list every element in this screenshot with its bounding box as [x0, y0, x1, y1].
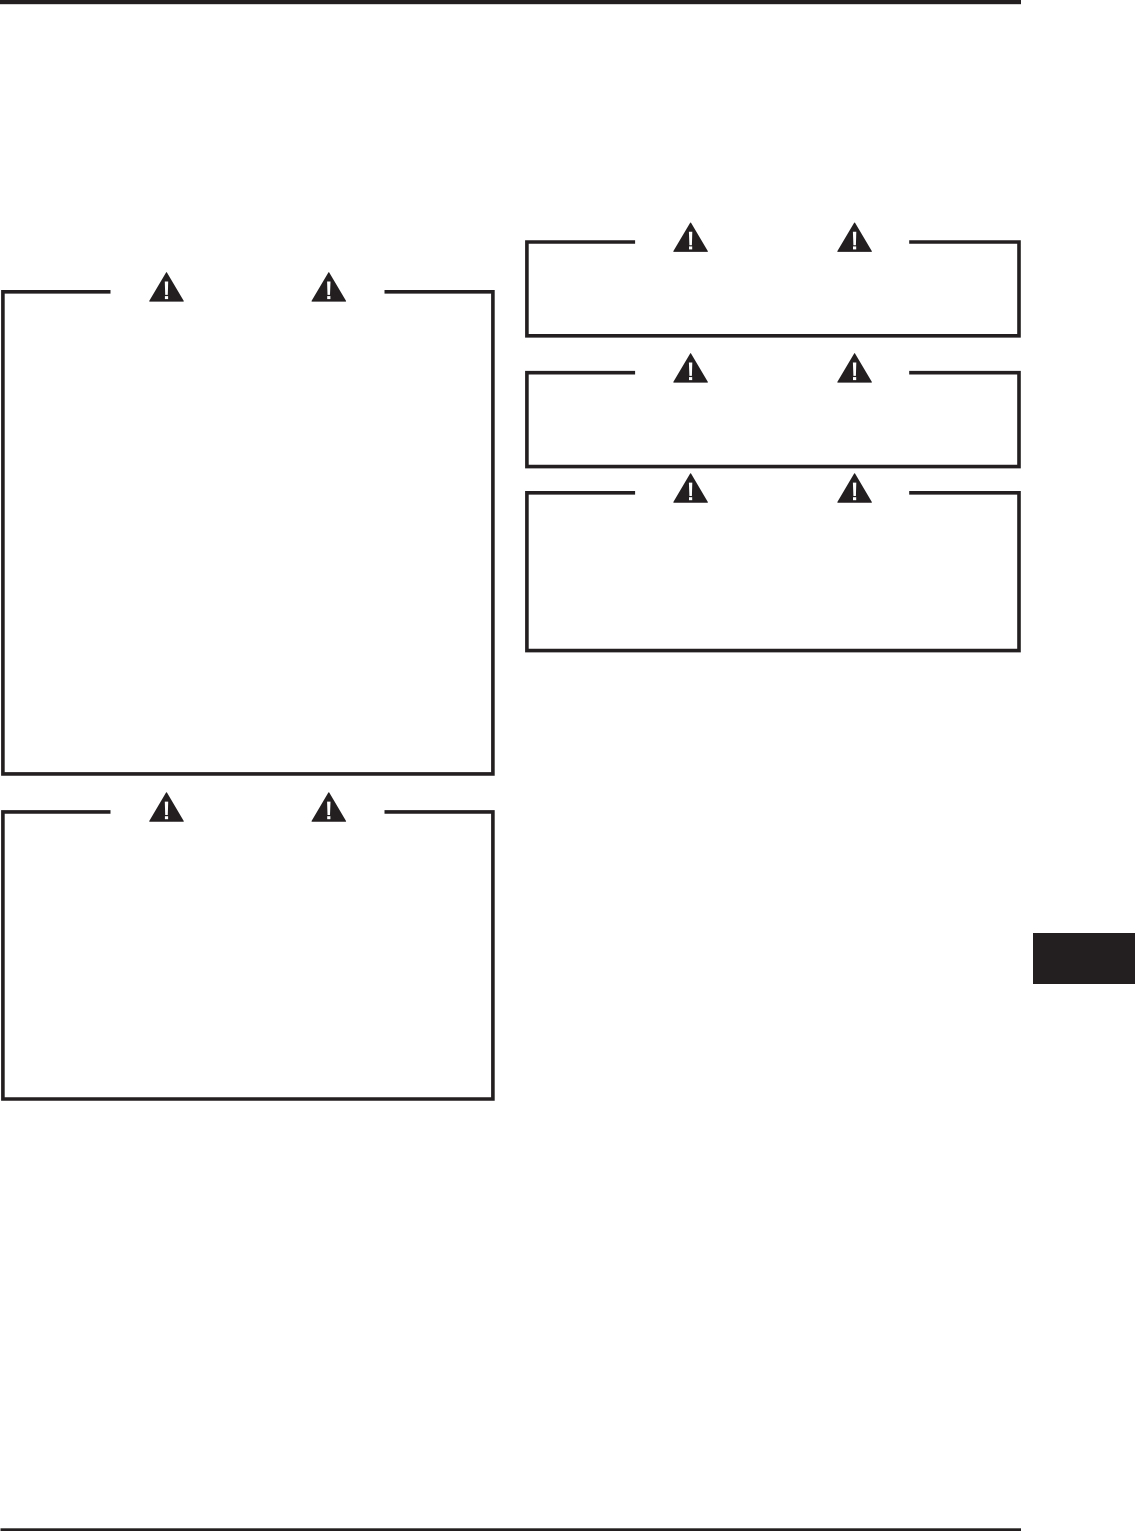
section tab marker (right edge)	[1033, 933, 1135, 984]
top header bar	[0, 0, 1021, 4]
bottom footer rule	[1, 1528, 1022, 1531]
warning triangle L2-b	[312, 793, 346, 821]
warning triangle R1-a	[674, 223, 708, 251]
warning box R3 frame	[527, 493, 1019, 651]
warning triangle R3-b	[838, 474, 872, 502]
warning box R1 frame	[527, 242, 1019, 336]
warning triangle L2-a	[150, 793, 184, 821]
warning box L1 frame	[3, 292, 493, 774]
warning triangle R2-a	[674, 354, 708, 382]
warning triangle R3-a	[674, 474, 708, 502]
warning box L2 frame	[3, 812, 493, 1099]
warning triangle L1-a	[150, 273, 184, 301]
warning triangle R1-b	[838, 223, 872, 251]
warning triangle L1-b	[312, 273, 346, 301]
warning box R2 frame	[527, 373, 1019, 467]
warning triangle R2-b	[838, 354, 872, 382]
